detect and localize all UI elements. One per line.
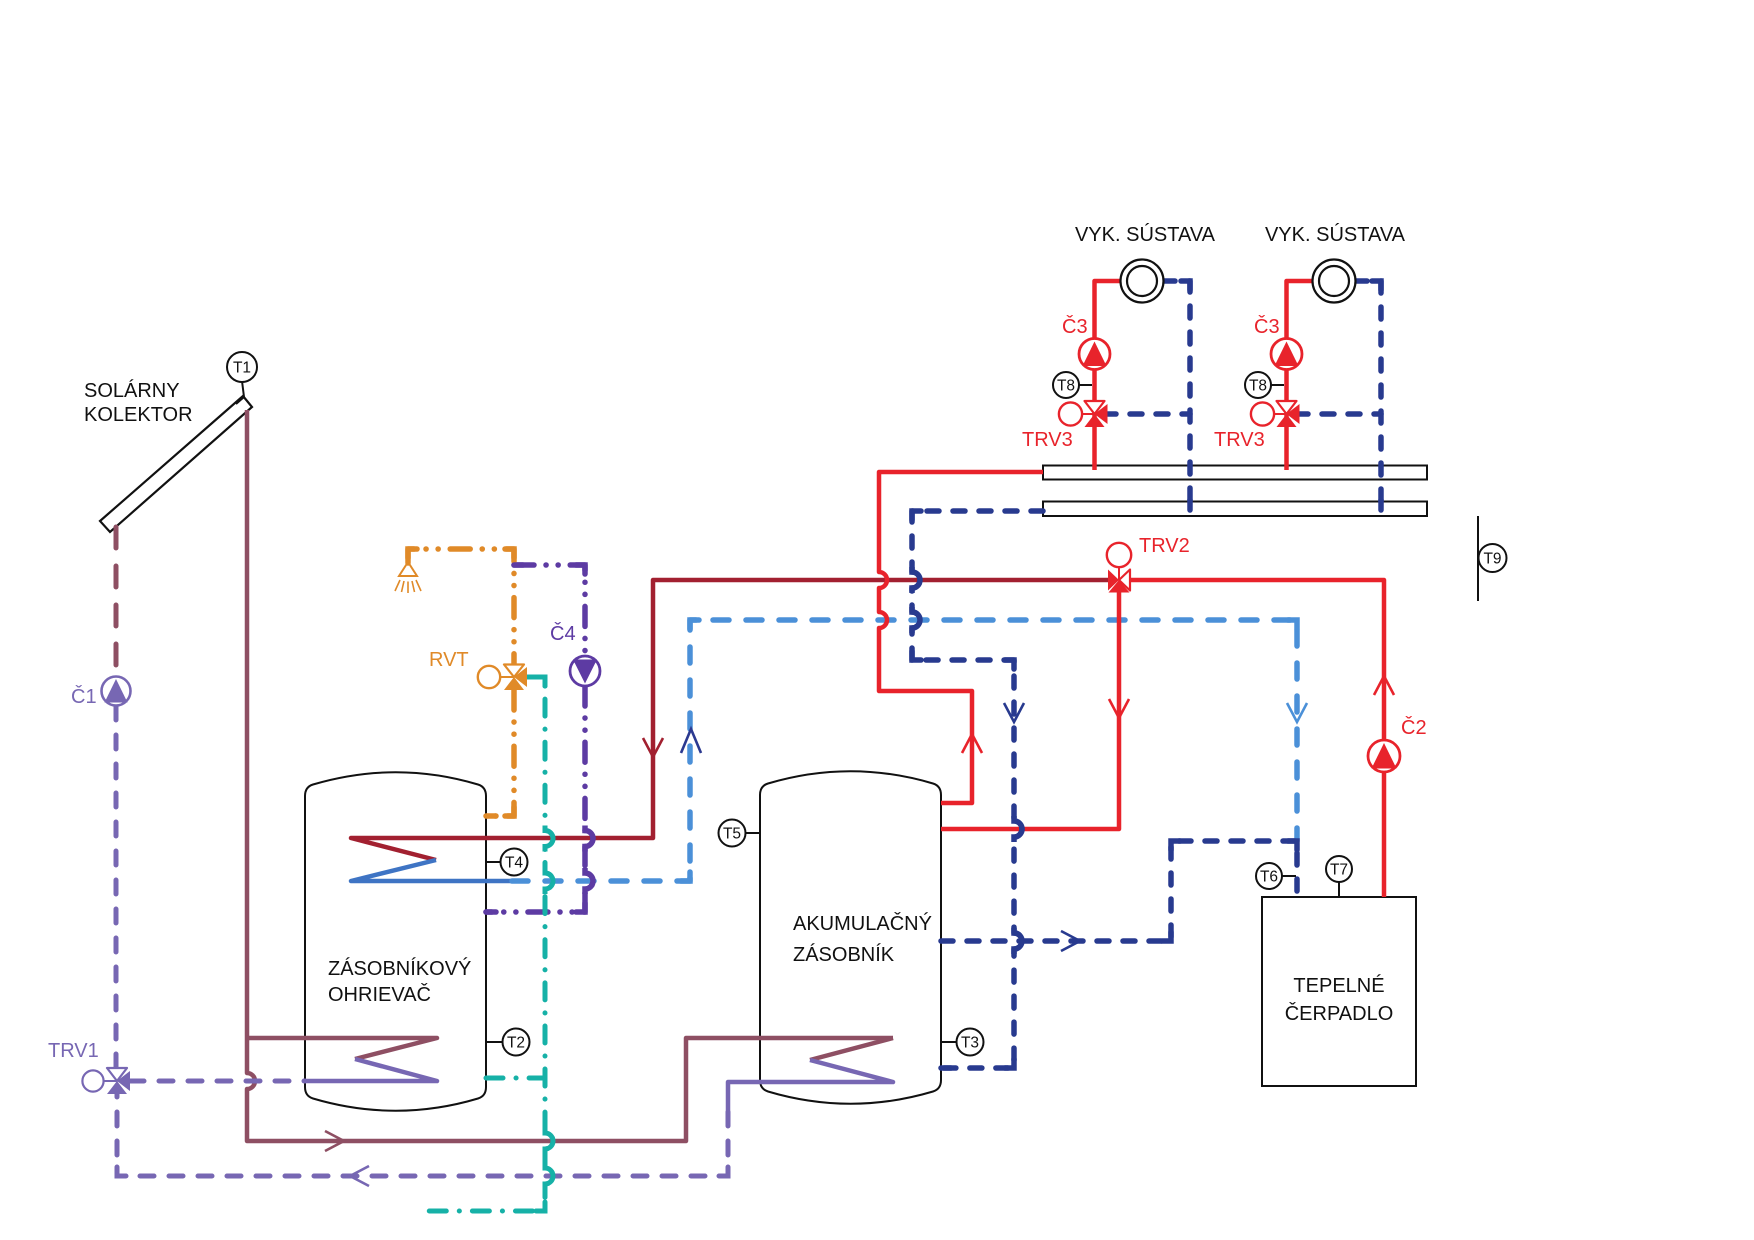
arrow down on dark blue drop	[1004, 703, 1024, 722]
svg-text:T2: T2	[507, 1035, 525, 1052]
G_EQUIP equipment outlines	[305, 466, 1427, 1111]
valve TRV2 (3-way, red, on horizontal line)	[1107, 543, 1131, 593]
pump C1 (solar)	[102, 677, 131, 706]
sensor stem T1 to collector	[242, 381, 244, 397]
wire: violet below pump C4 into tank1	[486, 686, 593, 912]
svg-text:T9: T9	[1483, 551, 1501, 568]
T9 sensor mounting line	[1477, 516, 1479, 601]
wire: teal tee into tank1	[486, 1076, 545, 1081]
wire: bright red heating supply: header to tank2 top	[879, 472, 1043, 803]
wire: heating circuit 2 valve bypass	[1296, 411, 1381, 417]
svg-text:Č2: Č2	[1401, 716, 1427, 739]
wire: bright red TRV2 to C2 to heat pump	[1129, 580, 1384, 897]
wire: heating circuit 1 valve bypass	[1104, 411, 1190, 417]
sensor T2	[486, 1029, 530, 1056]
svg-text:OHRIEVAČ: OHRIEVAČ	[328, 983, 431, 1006]
wire: tank1 hot circuit dark red: TRV2 left to tank1 coil	[351, 580, 1109, 860]
arrow right on dark blue tank2 outlet	[1061, 931, 1080, 951]
arrow up on C2 riser	[1374, 676, 1394, 695]
wire: violet DHW circulation line	[514, 565, 585, 656]
sensor T6	[1256, 863, 1296, 889]
wire: heating circuit 1 blue return	[1163, 281, 1190, 510]
svg-text:T1: T1	[233, 360, 251, 377]
arrow down on light blue drop	[1287, 703, 1307, 722]
wire: teal cold feed from RVT down to bottom	[428, 677, 553, 1211]
pump C4 (DHW circulation, triangle down)	[570, 656, 600, 686]
valve TRV3 circuit 1	[1059, 401, 1108, 427]
wire: tank1 coil cold out to TRV1 (dashed)	[130, 1079, 305, 1084]
svg-text:T8: T8	[1249, 378, 1267, 395]
wire: solar tee into tank1 coil + hot half of coil 1	[247, 1038, 437, 1059]
wire: solar return light purple pump C1 down to TRV1	[114, 706, 119, 1068]
wire: tank2 coil return dashed light purple down and long bottom run to TRV1	[117, 1094, 728, 1176]
wire: tank1 coil blue cold half solid	[351, 860, 512, 881]
solar collector panel	[100, 396, 252, 532]
svg-text:TRV2: TRV2	[1139, 535, 1190, 557]
radiator circuit 1 (VYK. SUSTAVA)	[1121, 260, 1164, 303]
svg-text:TEPELNÉ: TEPELNÉ	[1293, 974, 1384, 997]
sensor T3	[941, 1029, 984, 1056]
sensor T8 circuit 1	[1053, 372, 1092, 398]
tank 2 AKUMULACNY ZASOBNIK body	[760, 771, 941, 1104]
svg-text:VYK. SÚSTAVA: VYK. SÚSTAVA	[1265, 223, 1406, 246]
svg-text:ZÁSOBNÍK: ZÁSOBNÍK	[793, 943, 895, 966]
wire: bright red TRV2 down branch into tank2	[941, 592, 1119, 829]
svg-text:Č4: Č4	[550, 622, 576, 645]
svg-text:T7: T7	[1330, 862, 1348, 879]
solid corner pieces on dashed pipes	[117, 281, 1381, 1211]
pump C3 circuit 2	[1271, 339, 1302, 370]
radiator circuit 2 (VYK. SUSTAVA)	[1313, 260, 1356, 303]
sensor T9	[1479, 544, 1507, 572]
wire: light blue dashed: tank1 cold riser and top run to heat pump return	[512, 620, 1297, 881]
svg-text:TRV3: TRV3	[1022, 429, 1073, 451]
sensor T7	[1326, 856, 1352, 897]
wire: tank2 coil hot diagonal	[810, 1038, 893, 1060]
svg-text:SOLÁRNY: SOLÁRNY	[84, 379, 180, 402]
svg-text:KOLEKTOR: KOLEKTOR	[84, 404, 193, 426]
pump C3 circuit 1	[1079, 339, 1110, 370]
wire: heating circuit 1 red riser	[1095, 281, 1122, 470]
valve RVT (3-way mixing, orange)	[478, 665, 527, 691]
heat pump TEPELNE CERPADLO box	[1262, 897, 1416, 1086]
wire: solar supply mauve solid: collector down, bottom run, riser to tank2 coil	[247, 410, 893, 1141]
arrow left on light purple return run	[350, 1166, 369, 1186]
manifold bar 2 (return header)	[1043, 502, 1427, 517]
svg-text:RVT: RVT	[429, 649, 469, 671]
wire: orange RVT down into tank1 top	[486, 690, 514, 816]
svg-text:TRV3: TRV3	[1214, 429, 1265, 451]
wire: dark blue dashed tank2 out to heat pump top	[941, 841, 1297, 941]
shower symbol (orange)	[395, 562, 421, 593]
svg-text:ČERPADLO: ČERPADLO	[1285, 1002, 1394, 1025]
valve TRV1 (3-way, light purple)	[82, 1068, 130, 1094]
arrow up on light blue riser (navy)	[681, 729, 701, 753]
svg-text:T3: T3	[961, 1035, 979, 1052]
svg-text:T5: T5	[723, 826, 741, 843]
sensor T1	[227, 352, 257, 382]
svg-text:Č1: Č1	[71, 685, 97, 708]
svg-text:ZÁSOBNÍKOVÝ: ZÁSOBNÍKOVÝ	[328, 957, 471, 980]
wire: heating circuit 2 blue return	[1355, 281, 1381, 510]
valve TRV3 circuit 2	[1251, 401, 1300, 427]
tank 1 ZASOBNIKOVY OHRIEVAC body	[305, 772, 486, 1111]
wire: tank1 coil cold half (solid light purple)	[305, 1059, 437, 1081]
wire: tank2 coil cold half solid light purple	[728, 1060, 893, 1112]
arrow up on red pipe to tank2	[962, 734, 982, 753]
svg-text:T8: T8	[1057, 378, 1075, 395]
arrow right on solar bottom run	[325, 1131, 344, 1151]
pump C2 (heat pump charge)	[1368, 740, 1400, 772]
wire: dark blue dashed header return to heat pump inlet via tank2	[912, 511, 1043, 1068]
sensor T4	[486, 849, 528, 876]
svg-text:Č3: Č3	[1062, 315, 1088, 338]
manifold bar 1 (supply header)	[1043, 466, 1427, 480]
wire: solar return dashed mauve collector to pump C1	[114, 527, 119, 676]
svg-text:VYK. SÚSTAVA: VYK. SÚSTAVA	[1075, 223, 1216, 246]
temperature sensors	[227, 352, 1507, 1056]
sensor T8 circuit 2	[1245, 372, 1284, 398]
sensor T5	[719, 820, 761, 847]
wire: heating circuit 2 red riser	[1287, 281, 1314, 470]
svg-text:T6: T6	[1260, 869, 1278, 886]
wire: orange DHW line shower to RVT	[408, 549, 514, 666]
svg-text:AKUMULAČNÝ: AKUMULAČNÝ	[793, 912, 932, 935]
svg-text:Č3: Č3	[1254, 315, 1280, 338]
svg-text:T4: T4	[505, 855, 523, 872]
svg-text:TRV1: TRV1	[48, 1040, 99, 1062]
arrow down on TRV2 branch	[1109, 699, 1129, 718]
arrow down on dark red drop	[643, 738, 663, 757]
solid crossover arcs on dashed pipes	[545, 567, 1022, 1189]
